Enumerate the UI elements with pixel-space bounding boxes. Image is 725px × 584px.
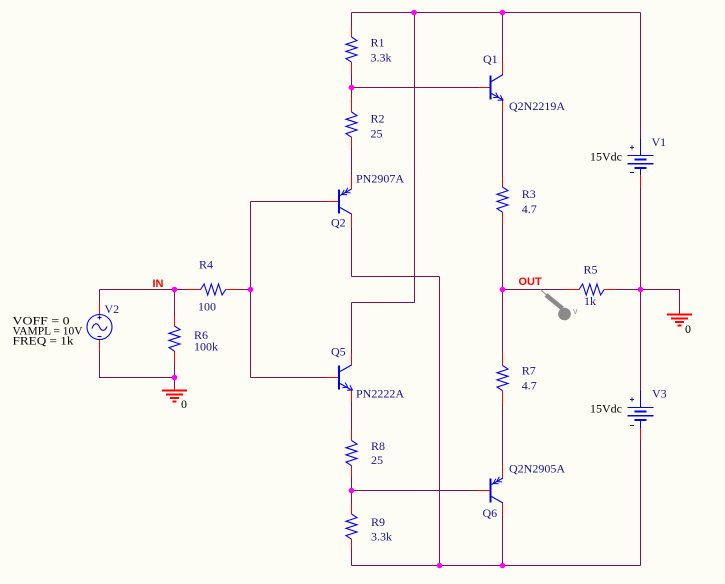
resistor R6 bbox=[169, 326, 180, 351]
wire OUT junction to V3 bbox=[640, 290, 642, 392]
wire R2 to Q2 emitter bbox=[351, 148, 353, 176]
wire top rail bbox=[352, 12, 641, 14]
pin R1 bottom bbox=[351, 62, 353, 74]
transistor Q5 bbox=[339, 365, 353, 390]
svg-text:R4: R4 bbox=[199, 258, 213, 272]
wire input bus vertical bbox=[250, 202, 252, 378]
svg-text:25: 25 bbox=[371, 127, 383, 141]
source V2 (VSIN) bbox=[87, 315, 112, 340]
wire junction to Q1 base bbox=[352, 87, 480, 89]
pin R4 left bbox=[188, 289, 201, 291]
wire right rail to ground bbox=[641, 290, 680, 314]
resistor R5 bbox=[579, 284, 604, 295]
wire ground stub V2 bbox=[174, 378, 176, 391]
junction dot bottom rail left bbox=[437, 563, 443, 569]
pin Q5 collector bbox=[351, 353, 353, 366]
svg-text:100k: 100k bbox=[194, 340, 218, 354]
svg-text:R8: R8 bbox=[371, 439, 385, 453]
wire V2 top bbox=[99, 290, 101, 303]
svg-text:R7: R7 bbox=[522, 364, 536, 378]
pin Q6 base bbox=[478, 490, 490, 492]
battery V1 bbox=[628, 139, 654, 175]
junction dot V2 ground bbox=[172, 375, 178, 381]
svg-text:4.7: 4.7 bbox=[522, 379, 537, 393]
resistor R2 bbox=[346, 112, 357, 137]
wire R1 top stub bbox=[351, 13, 353, 27]
ground 0 (V2 source) bbox=[162, 391, 187, 402]
wire Q2 base run bbox=[251, 201, 328, 203]
pin Q2 collector bbox=[351, 214, 353, 228]
svg-text:4.7: 4.7 bbox=[522, 202, 537, 216]
wire Q1 collector up bbox=[502, 13, 504, 62]
junction dot IN bbox=[172, 287, 178, 293]
wire right rail upper bbox=[640, 13, 642, 140]
junction dot top rail tap bbox=[411, 10, 417, 16]
wire jog to Q5 collector bbox=[352, 302, 415, 304]
junction dot Q1 collector bbox=[500, 10, 506, 16]
svg-text:v: v bbox=[573, 306, 578, 316]
transistor Q6 bbox=[491, 477, 504, 503]
wire IN run bbox=[100, 289, 175, 291]
resistor R4 bbox=[201, 284, 226, 295]
wire Q5 emitter to R8 bbox=[351, 402, 353, 430]
wire junction to R2 bbox=[351, 88, 353, 98]
wire Q2 collector horizontal bbox=[352, 276, 440, 278]
wire Q6 collector to bottom rail bbox=[502, 517, 504, 566]
wire R7 to Q6 emitter bbox=[502, 404, 504, 465]
svg-text:Q5: Q5 bbox=[331, 345, 346, 359]
pin R5 left bbox=[565, 289, 579, 291]
junction dot R8/R9/Q6 base bbox=[349, 488, 355, 494]
wire R8 to junction bbox=[351, 477, 353, 491]
pin V2 bottom bbox=[99, 340, 101, 352]
svg-text:V3: V3 bbox=[652, 387, 667, 401]
pin Q5 base bbox=[327, 377, 339, 379]
pin Q2 emitter bbox=[351, 175, 353, 189]
wire down to bottom rail bbox=[439, 277, 441, 566]
svg-text:Q2N2219A: Q2N2219A bbox=[509, 99, 565, 113]
svg-text:R1: R1 bbox=[371, 36, 385, 50]
resistor R9 bbox=[346, 514, 357, 539]
svg-text:R3: R3 bbox=[522, 187, 536, 201]
svg-text:25: 25 bbox=[371, 453, 383, 467]
svg-text:3.3k: 3.3k bbox=[371, 51, 392, 65]
pin V3 bottom bbox=[640, 428, 642, 440]
transistor Q2 bbox=[339, 188, 352, 214]
wire R6 to ground junction bbox=[174, 364, 176, 378]
svg-text:R2: R2 bbox=[371, 112, 385, 126]
svg-text:R5: R5 bbox=[584, 263, 598, 277]
wire OUT to R7 bbox=[502, 290, 504, 353]
svg-text:PN2222A: PN2222A bbox=[356, 387, 404, 401]
svg-text:0: 0 bbox=[181, 397, 187, 411]
wire bottom rail bbox=[352, 565, 641, 567]
pin R3 top bbox=[502, 177, 504, 187]
pin R8 top bbox=[351, 430, 353, 441]
svg-text:R9: R9 bbox=[371, 515, 385, 529]
pin V2 top bbox=[99, 302, 101, 315]
svg-text:Q2: Q2 bbox=[331, 216, 346, 230]
wire top rail tap down bbox=[414, 13, 416, 303]
wire R5 to right rail bbox=[617, 289, 641, 291]
pin R7 top bbox=[502, 353, 504, 366]
svg-text:Q6: Q6 bbox=[483, 506, 498, 520]
wire V1 to OUT junction bbox=[640, 188, 642, 290]
pin R3 bottom bbox=[502, 212, 504, 224]
svg-text:Q2N2905A: Q2N2905A bbox=[509, 462, 565, 476]
svg-text:1k: 1k bbox=[584, 294, 596, 308]
wire Q5 base run bbox=[251, 377, 327, 379]
junction dot bottom rail right bbox=[500, 563, 506, 569]
pin R9 bottom bbox=[351, 539, 353, 549]
junction dot input bus bbox=[248, 287, 254, 293]
wire V3 to bottom rail bbox=[640, 440, 642, 566]
svg-text:100: 100 bbox=[198, 300, 216, 314]
pin R9 top bbox=[351, 504, 353, 515]
pin R6 bottom bbox=[174, 351, 176, 363]
pin Q6 collector bbox=[502, 503, 504, 517]
svg-text:V2: V2 bbox=[105, 302, 120, 316]
resistor R7 bbox=[497, 366, 508, 391]
svg-text:PN2907A: PN2907A bbox=[356, 172, 404, 186]
wire R1-to-junction bbox=[351, 75, 353, 88]
wire Q1 emitter to R3 bbox=[502, 113, 504, 178]
pin Q6 emitter bbox=[502, 465, 504, 478]
pin Q1 emitter bbox=[502, 100, 504, 113]
wire V2 bottom to ground bbox=[100, 351, 175, 378]
wire R4 to input bus bbox=[239, 289, 251, 291]
junction dot OUT bbox=[500, 287, 506, 293]
resistor R3 bbox=[497, 187, 508, 212]
wire junction to Q6 base bbox=[352, 490, 478, 492]
wire IN to R6 bbox=[174, 290, 176, 317]
pin R5 right bbox=[604, 289, 616, 291]
svg-text:Q1: Q1 bbox=[483, 52, 498, 66]
pin V1 bottom bbox=[640, 175, 642, 188]
pin R8 bottom bbox=[351, 466, 353, 477]
wire R3 to OUT bbox=[502, 224, 504, 290]
pin R4 right bbox=[226, 289, 239, 291]
pin R2 bottom bbox=[351, 137, 353, 147]
wire R9 to bottom rail bbox=[351, 549, 353, 566]
transistor Q1 bbox=[491, 75, 504, 101]
pin R7 bottom bbox=[502, 391, 504, 404]
svg-text:V1: V1 bbox=[652, 135, 667, 149]
pin Q1 collector bbox=[502, 61, 504, 75]
pin R1 top bbox=[351, 26, 353, 37]
wire junction to R9 bbox=[351, 491, 353, 504]
wire Q2 collector down bbox=[351, 228, 353, 277]
junction dot right rail bbox=[638, 287, 644, 293]
pin Q5 emitter bbox=[351, 390, 353, 402]
ground 0 (output, right) bbox=[667, 315, 692, 326]
pin R2 top bbox=[351, 98, 353, 113]
pin R6 top bbox=[174, 316, 176, 326]
svg-text:0: 0 bbox=[685, 322, 691, 336]
wire Q5 collector up bbox=[351, 303, 353, 354]
resistor R8 bbox=[346, 441, 357, 466]
wire R4 left lead bbox=[175, 289, 188, 291]
wire OUT to R5 bbox=[503, 289, 566, 291]
svg-text:FREQ = 1k: FREQ = 1k bbox=[13, 334, 74, 348]
battery V3 bbox=[628, 391, 654, 428]
svg-text:3.3k: 3.3k bbox=[371, 530, 392, 544]
junction dot R1/R2/Q1 base bbox=[349, 85, 355, 91]
svg-text:15Vdc: 15Vdc bbox=[590, 402, 622, 416]
svg-text:OUT: OUT bbox=[519, 276, 543, 288]
pin Q2 base bbox=[327, 201, 338, 203]
voltage probe marker at OUT bbox=[541, 290, 571, 321]
svg-text:15Vdc: 15Vdc bbox=[590, 150, 622, 164]
resistor R1 bbox=[346, 37, 357, 62]
svg-text:IN: IN bbox=[153, 278, 164, 290]
pin Q1 base bbox=[479, 87, 490, 89]
